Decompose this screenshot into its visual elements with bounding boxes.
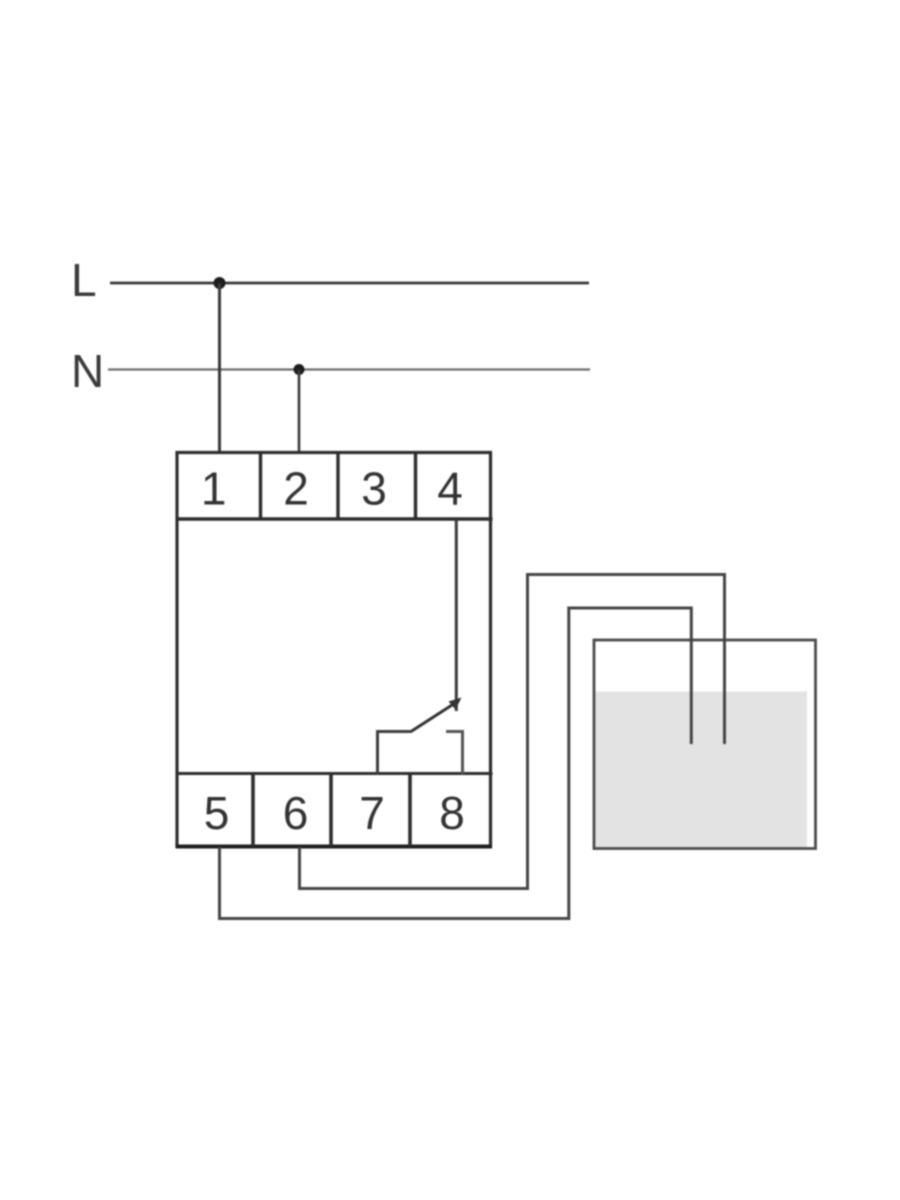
svg-text:8: 8 bbox=[439, 787, 465, 839]
svg-text:6: 6 bbox=[283, 787, 309, 839]
svg-text:1: 1 bbox=[201, 463, 227, 515]
svg-text:N: N bbox=[71, 345, 104, 397]
svg-text:4: 4 bbox=[437, 463, 463, 515]
svg-text:5: 5 bbox=[204, 787, 230, 839]
svg-text:3: 3 bbox=[361, 463, 387, 515]
svg-text:7: 7 bbox=[359, 787, 385, 839]
svg-text:2: 2 bbox=[283, 463, 309, 515]
svg-text:L: L bbox=[71, 254, 97, 306]
